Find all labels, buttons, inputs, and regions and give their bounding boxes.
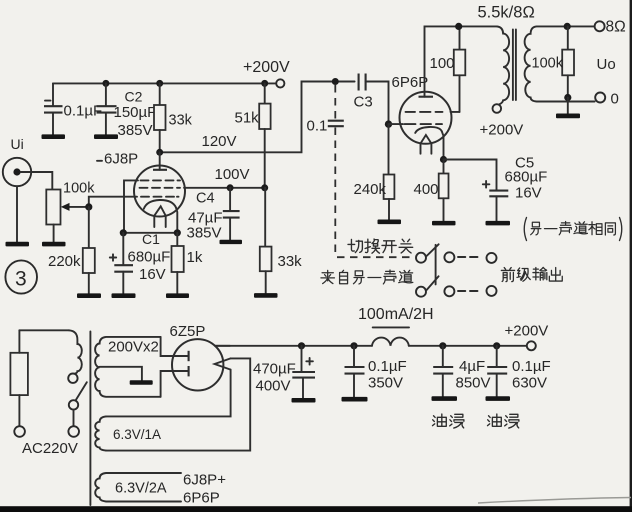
node secondary/100k top	[564, 23, 571, 30]
switch dashes upper to preamp-out terminal	[458, 256, 478, 258]
svg-text:5.5k/8Ω: 5.5k/8Ω	[478, 3, 535, 21]
wire 200Vx2 bottom tap to rectifier plate	[161, 371, 188, 397]
page marker circle 3	[5, 260, 37, 293]
6J8P plate lead	[159, 152, 161, 170]
resistor 51k (screen feed)	[259, 83, 270, 187]
svg-text:6P6P: 6P6P	[392, 74, 429, 91]
wire grid lead	[389, 123, 404, 125]
svg-text:C3: C3	[354, 94, 373, 111]
wire Ui to ground	[16, 186, 18, 242]
node B+/0.1uF630V	[493, 342, 500, 349]
svg-text:6J8P: 6J8P	[104, 151, 138, 168]
resistor 100k secondary load	[562, 26, 574, 97]
wire C3 to 6P6P grid	[366, 82, 389, 125]
label youjin (oil-filled) 1	[433, 414, 464, 428]
ground 0.1uF	[42, 134, 66, 139]
6J8P plate bar	[153, 169, 167, 171]
svg-text:6P6P: 6P6P	[183, 489, 220, 506]
resistor 33k (plate load)	[154, 83, 166, 152]
svg-text:4µF: 4µF	[459, 358, 485, 375]
svg-text:Uo: Uo	[597, 56, 616, 73]
svg-text:+200V: +200V	[243, 59, 290, 76]
node grid/240k	[385, 120, 392, 127]
node coupling/other-channel branch	[332, 78, 339, 85]
node B+/470uF	[298, 342, 305, 349]
6J8P heater filament	[154, 206, 165, 227]
transformer T1 core	[89, 332, 91, 506]
capacitor 0.1 (other channel feed)	[328, 121, 344, 127]
svg-text:100k: 100k	[63, 180, 95, 196]
capacitor 4uF/850V	[433, 346, 453, 397]
svg-text:150µF: 150µF	[114, 104, 157, 121]
svg-text:Ui: Ui	[11, 136, 24, 152]
6Z5P cathode chevron	[215, 358, 231, 369]
terminal preamp out upper	[487, 253, 497, 263]
ground 470uF	[292, 398, 316, 403]
ground center tap	[130, 380, 153, 384]
svg-text:100mA/2H: 100mA/2H	[358, 306, 434, 323]
svg-text:0: 0	[611, 91, 619, 108]
svg-text:0.1µF: 0.1µF	[512, 358, 551, 375]
node 100V/C4	[227, 184, 234, 191]
terminal AC mains right	[68, 426, 79, 437]
switch S1 upper pole contact	[444, 252, 454, 262]
ground C5	[486, 221, 511, 226]
switch gang link	[435, 245, 437, 285]
svg-text:51k: 51k	[235, 110, 260, 127]
resistor 1k cathode bias	[172, 233, 184, 294]
ground C4	[220, 240, 243, 244]
label qiehuan-kaiguan (changeover switch)	[348, 239, 413, 253]
node secondary/100k bottom	[564, 94, 571, 101]
6P6P plate lead to output transformer	[425, 26, 498, 96]
6Z5P plate 2	[188, 366, 190, 376]
transformer T1 primary winding	[69, 330, 82, 374]
switch mains lever	[76, 382, 87, 400]
label qianji-shuchu (preamp output)	[501, 267, 562, 281]
transformer T1 secondary 6.3V/2A winding	[95, 473, 181, 502]
node 100V/51k/33k	[261, 184, 268, 191]
svg-text:C2: C2	[125, 89, 143, 105]
node B+/4uF	[439, 342, 446, 349]
node plate rail/100	[455, 23, 462, 30]
terminal +200V to primary	[493, 104, 502, 113]
ground Ui	[6, 242, 30, 247]
svg-text:8Ω: 8Ω	[606, 19, 626, 36]
svg-text:100k: 100k	[532, 56, 564, 72]
svg-text:3: 3	[15, 268, 27, 291]
capacitor C4 47uF/385V screen bypass	[223, 188, 240, 240]
scan border bottom bar	[0, 506, 632, 512]
node cathode/C1	[120, 229, 127, 236]
transformer T2 secondary winding	[525, 26, 595, 101]
capacitor C3 coupling	[359, 74, 366, 91]
svg-text:120V: 120V	[202, 133, 237, 150]
resistor 100 screen stopper	[454, 26, 466, 112]
svg-text:1k: 1k	[187, 249, 203, 266]
potentiometer 100k volume	[46, 190, 60, 243]
ground 400	[432, 221, 456, 226]
wire cathode to C5	[444, 160, 497, 191]
svg-text:6Z5P: 6Z5P	[170, 323, 206, 340]
transformer T1 secondary 200Vx2 winding	[95, 337, 161, 397]
capacitor 0.1uF/350V	[345, 346, 365, 397]
svg-text:100V: 100V	[215, 166, 250, 183]
svg-text:350V: 350V	[368, 375, 403, 392]
terminal +200V output	[527, 341, 536, 350]
wire screen to 100 ohm	[451, 111, 460, 113]
svg-text:6.3V/2A: 6.3V/2A	[115, 481, 167, 497]
wire AC top to primary	[19, 329, 69, 331]
svg-text:385V: 385V	[187, 224, 222, 241]
wire B+ takeoff from rectifier	[215, 345, 230, 347]
transformer T1 secondary 6.3V/1A winding	[95, 416, 106, 450]
6P6P cathode arc	[415, 127, 442, 133]
svg-text:220k: 220k	[48, 253, 81, 270]
svg-text:+200V: +200V	[505, 322, 549, 339]
op-amp? no: vacuum tube 6J8P V1 envelope	[134, 166, 185, 217]
6P6P control grid dashes	[405, 123, 443, 125]
transformer T2 primary winding	[497, 26, 509, 104]
svg-text:6J8P+: 6J8P+	[183, 471, 226, 488]
terminal 8 ohm output	[595, 21, 605, 31]
capacitor C5 680uF/16V	[483, 181, 509, 221]
ground secondary	[556, 114, 580, 119]
resistor 33k divider lower	[260, 188, 272, 293]
svg-text:400V: 400V	[256, 377, 291, 394]
capacitor 0.1uF bypass	[44, 101, 63, 135]
ground 33k	[254, 293, 278, 298]
wire +200V rail top-left	[53, 82, 276, 84]
switch dashes lower to preamp-out terminal	[458, 290, 478, 292]
wire rail drop to 0.1uF	[52, 83, 54, 105]
svg-text:0.1µF: 0.1µF	[64, 102, 103, 119]
wire 100k to ground	[567, 98, 569, 114]
pot wiper arrow	[61, 203, 89, 211]
ground 0.1uF 350V	[342, 397, 368, 402]
switch S1 upper: left contact	[416, 253, 426, 263]
svg-text:470µF: 470µF	[253, 360, 296, 377]
wire filament upper to 6.3V/1A bottom	[106, 358, 250, 450]
terminal +200V (preamp rail)	[276, 79, 284, 87]
wire screen grid to 100V node	[184, 187, 265, 189]
6J8P cathode lead	[176, 208, 177, 233]
wire B+ line	[215, 345, 372, 347]
transformer T2 core	[513, 30, 516, 101]
resistor 240k grid return	[384, 124, 395, 220]
6J8P screen grid dashes	[140, 187, 181, 189]
wire 200Vx2 top tap to rectifier plate	[161, 337, 188, 356]
capacitor 470uF/400V	[292, 346, 315, 398]
node rail/51k	[261, 80, 268, 87]
ground 240k	[378, 220, 402, 225]
label (other channel identical)	[524, 218, 622, 241]
svg-text:C1: C1	[142, 231, 160, 247]
ground 0.1uF 630V	[486, 396, 511, 401]
ground 220k	[77, 293, 101, 298]
wire Ui to pot	[21, 172, 53, 190]
vacuum tube 6P6P V2 envelope	[400, 92, 452, 144]
svg-text:680µF: 680µF	[505, 169, 548, 186]
scan page-curl shadow line	[478, 498, 631, 504]
ground C2	[94, 134, 118, 139]
svg-text:400: 400	[414, 181, 439, 198]
capacitor 0.1uF/630V	[487, 346, 507, 397]
node cathode/400/C5	[440, 156, 447, 163]
node rail/33k	[156, 80, 163, 87]
wire control grid to pot wiper	[89, 197, 137, 207]
switch S1 lower lever	[427, 276, 439, 290]
switch S1 lower pole contact	[444, 286, 454, 296]
connector Ui input jack	[3, 158, 31, 186]
vacuum tube 6Z5P rectifier envelope	[172, 339, 223, 390]
label laizi-lingyishengdao (from the other channel)	[321, 270, 413, 284]
svg-text:100: 100	[430, 55, 455, 72]
wire dashed to other channel cap	[334, 85, 336, 120]
svg-text:200Vx2: 200Vx2	[108, 339, 159, 356]
ground pot	[42, 242, 66, 247]
wire dashed down to switch	[334, 128, 336, 257]
label youjin (oil-filled) 2	[488, 414, 519, 428]
wire filament lower to 6.3V/1A top	[106, 370, 231, 417]
terminal AC mains left	[14, 426, 25, 437]
switch mains lower contact	[69, 400, 78, 409]
6P6P plate bar	[419, 96, 434, 98]
svg-text:0.1: 0.1	[307, 118, 328, 135]
ground C1	[112, 293, 136, 298]
svg-text:33k: 33k	[169, 113, 193, 129]
switch S1 lower: left contact	[416, 287, 426, 297]
wire switch to AC terminal	[73, 410, 75, 427]
node wiper/grid/220k	[85, 203, 92, 210]
svg-text:630V: 630V	[512, 375, 547, 392]
terminal 0 output	[595, 93, 605, 103]
6J8P suppressor grid dashes	[141, 179, 181, 181]
svg-text:850V: 850V	[456, 375, 491, 392]
svg-text:+200V: +200V	[480, 122, 524, 139]
terminal preamp out lower	[487, 286, 497, 296]
label 6J8P	[97, 151, 138, 168]
6J8P cathode arc	[144, 200, 176, 209]
wire cathode line	[123, 232, 177, 234]
resistor 220k grid leak	[83, 207, 95, 294]
switch mains upper contact	[68, 374, 77, 383]
inductor choke 100mA/2H	[372, 338, 409, 346]
6Z5P plate 1	[188, 351, 190, 361]
wire plate of 6J8P to C3	[160, 82, 355, 153]
svg-text:240k: 240k	[354, 181, 387, 198]
svg-text:AC220V: AC220V	[22, 440, 78, 457]
ground 1k	[166, 293, 189, 298]
svg-text:C4: C4	[196, 190, 215, 206]
capacitor C2 150uF/385V	[97, 83, 117, 134]
wire dashed to switch contact	[337, 256, 412, 258]
node B+/0.1uF350V	[350, 342, 357, 349]
6P6P heater filament	[421, 135, 432, 154]
svg-text:385V: 385V	[118, 122, 153, 139]
scan border right edge	[630, 0, 632, 512]
svg-text:33k: 33k	[278, 253, 303, 270]
label 100mA/2H	[358, 306, 434, 327]
svg-text:680µF: 680µF	[128, 248, 171, 265]
node rail/C2	[102, 80, 109, 87]
fuse F1	[10, 330, 28, 426]
6J8P control grid dashes	[141, 196, 179, 198]
resistor 400 cathode bias	[439, 160, 449, 222]
svg-text:0.1µF: 0.1µF	[368, 358, 407, 375]
svg-text:6.3V/1A: 6.3V/1A	[113, 427, 161, 442]
6P6P cathode lead	[442, 131, 444, 159]
switch S1 upper lever	[427, 244, 439, 256]
svg-text:16V: 16V	[515, 185, 542, 202]
svg-text:16V: 16V	[139, 266, 166, 283]
capacitor C1 680uF/16V cathode bypass	[110, 233, 133, 294]
node plate/33k	[156, 149, 163, 156]
wire B+ after choke	[409, 345, 527, 347]
wire suppressor to cathode line	[124, 180, 138, 232]
node cathode/1k	[174, 229, 181, 236]
6P6P screen grid dashes	[406, 111, 443, 113]
wire center tap	[100, 367, 142, 381]
ground 4uF	[432, 396, 458, 401]
